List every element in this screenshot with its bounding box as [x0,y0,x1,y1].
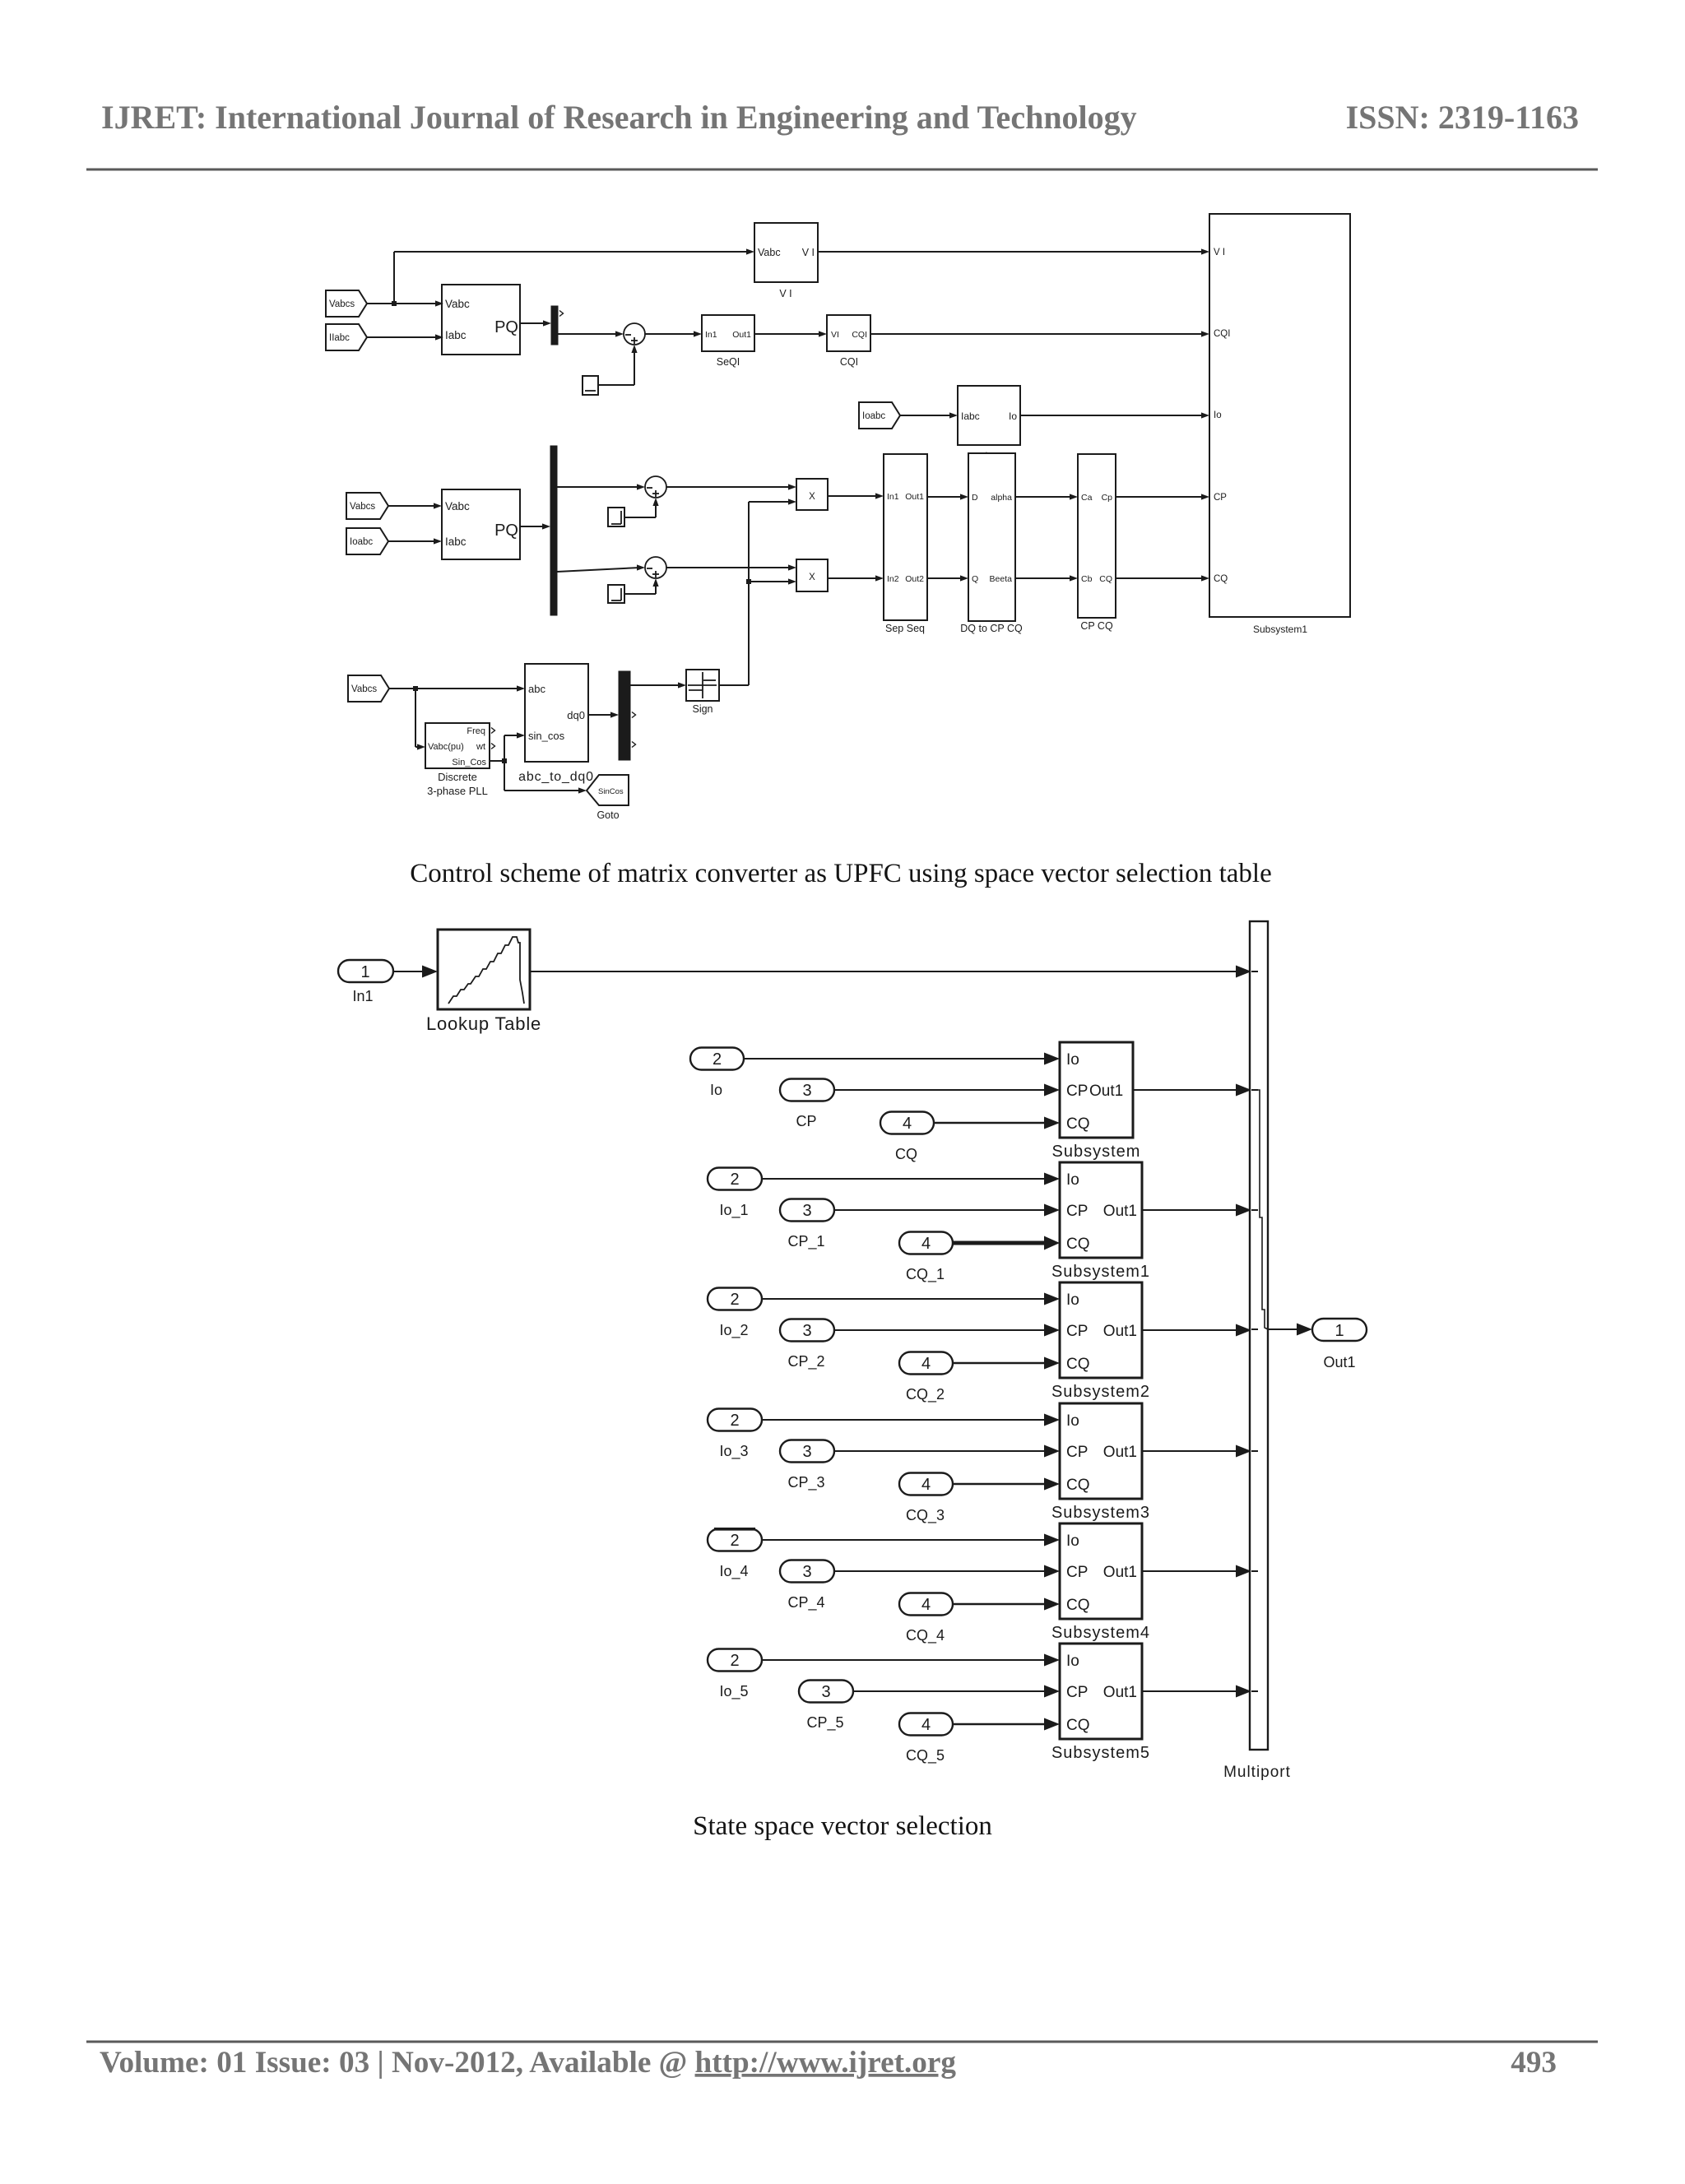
svg-text:V I: V I [779,288,791,299]
input oval 2 (Io_2) [708,1288,762,1340]
input oval 2 (Io_5) [708,1649,762,1701]
sum junction 3 [645,557,666,578]
svg-text:wt: wt [476,742,485,752]
sum junction 1 [624,323,645,345]
svg-text:CQ_5: CQ_5 [906,1747,945,1764]
wire X1 to Sep Seq In1 [828,493,884,498]
block Lookup Table [426,930,541,1034]
svg-text:Subsystem4: Subsystem4 [1051,1624,1150,1642]
svg-text:PQ: PQ [494,318,518,336]
demux bar 3 [619,671,636,760]
svg-text:3: 3 [802,1322,811,1340]
svg-text:CQ_4: CQ_4 [906,1627,945,1644]
wire Vabcs to abc_to_dq0 with branch node [389,685,525,691]
wire CQ_2 to Subsystem2 [953,1357,1060,1370]
wire X2 to Sep Seq In2 [828,575,884,581]
svg-text:Vabc: Vabc [445,298,470,310]
wire demux bar 3 to Sign [630,682,686,688]
svg-text:Ioabc: Ioabc [862,411,885,421]
svg-text:Out1: Out1 [905,492,924,502]
svg-text:Iabc: Iabc [961,410,980,422]
svg-text:CQ: CQ [1066,1356,1090,1373]
svg-text:2: 2 [730,1532,739,1550]
input tag Vabcs (top) [326,290,367,317]
svg-text:V I: V I [1214,248,1225,257]
svg-text:Freq: Freq [467,726,485,736]
svg-text:SeQI: SeQI [717,356,740,368]
svg-text:CP_2: CP_2 [787,1353,824,1370]
input oval 3 (CP_4) [780,1560,834,1612]
svg-text:CP: CP [796,1113,816,1129]
svg-text:Q: Q [972,574,978,584]
input oval 4 (CQ_2) [899,1352,953,1404]
wire Sign output up to products (vertical feed) [719,498,796,685]
svg-text:DQ to CP CQ: DQ to CP CQ [960,623,1023,634]
svg-text:CP CQ: CP CQ [1080,620,1113,632]
wire Cp to Subsystem1 CP [1116,494,1209,499]
svg-text:Sep Seq: Sep Seq [885,623,925,634]
input oval 4 (CQ_5) [899,1713,953,1765]
input oval 4 (CQ_1) [899,1232,953,1284]
block Discrete 3-phase PLL [425,723,495,797]
wire CQ to Subsystem [934,1117,1060,1129]
block Subsystem3 [1051,1403,1150,1522]
wire Io_1 to Subsystem1 [762,1173,1060,1185]
svg-text:Cb: Cb [1081,574,1093,584]
svg-text:CQ: CQ [895,1146,917,1162]
svg-text:CP: CP [1066,1564,1088,1581]
svg-text:Subsystem1: Subsystem1 [1051,1263,1150,1281]
input oval 3 (CP_2) [780,1319,834,1371]
svg-text:V I: V I [802,247,815,258]
block V I [754,223,818,299]
svg-text:4: 4 [921,1476,931,1494]
svg-text:Io: Io [1066,1412,1079,1430]
svg-text:D: D [972,493,978,503]
svg-text:Sin_Cos: Sin_Cos [452,758,486,767]
input tag Vabcs (middle) [346,493,388,519]
block CQI [827,315,870,368]
wire constant to sum 1 [598,345,638,385]
svg-text:Lookup Table: Lookup Table [426,1013,541,1034]
wire dq0 to demux bar 3 [588,712,619,717]
constant block feeding sum 1 [583,376,598,395]
svg-text:In1: In1 [705,330,717,340]
svg-text:CP: CP [1066,1684,1088,1701]
svg-text:3: 3 [802,1443,811,1461]
wire Vabcs to PQ2 [388,503,442,508]
svg-text:CQ: CQ [1066,1115,1090,1133]
memory block 1 [608,508,624,526]
sum junction 2 [645,476,666,498]
input tag Ioabc (row 3) [859,402,900,429]
svg-text:Subsystem1: Subsystem1 [1253,624,1307,635]
block Sep Seq [884,454,927,634]
wire IIabc to PQ1 [367,334,443,340]
input oval 3 (CP_5) [799,1681,853,1732]
svg-text:VI: VI [831,330,839,340]
caption state space vector selection [693,1811,992,1841]
input tag Vabcs (bottom) [348,675,389,702]
svg-text:1: 1 [1335,1322,1344,1340]
wire Subsystem Out1 to Multiport [1133,1084,1251,1097]
footer page number [1511,2046,1557,2080]
svg-text:IJRET: International Journal o: IJRET: International Journal of Research… [101,99,1137,136]
svg-text:Out1: Out1 [1103,1444,1137,1461]
svg-text:CQ: CQ [1066,1597,1090,1614]
wire Subsystem5 Out1 to Multiport [1142,1686,1251,1698]
svg-text:ISSN: 2319-1163: ISSN: 2319-1163 [1346,99,1579,136]
svg-text:CQI: CQI [852,330,867,340]
block Subsystem2 [1051,1282,1150,1401]
wire Io_2 to Subsystem2 [762,1293,1060,1305]
wire CQI to Subsystem1 [870,331,1209,336]
svg-text:Out1: Out1 [1323,1354,1355,1370]
svg-text:2: 2 [730,1291,739,1309]
svg-text:CQ: CQ [1214,574,1228,584]
footer rule [86,2041,1598,2043]
wire Out1 to D [927,494,968,499]
svg-text:Subsystem: Subsystem [1052,1143,1141,1161]
svg-text:2: 2 [730,1412,739,1430]
wire Subsystem2 Out1 to Multiport [1142,1324,1251,1337]
block SeQI [702,315,754,368]
svg-text:Io_3: Io_3 [719,1443,748,1460]
svg-text:CP_4: CP_4 [787,1594,824,1611]
svg-text:CP: CP [1214,493,1227,503]
svg-text:X: X [809,573,815,582]
svg-text:Out1: Out1 [1103,1564,1137,1581]
product block X1 [796,479,828,510]
wire In1 to Lookup Table [393,966,438,978]
svg-text:Iabc: Iabc [445,329,467,341]
goto tag SinCos [587,775,629,821]
wire demux bar 2 to sum 2 [557,484,645,489]
svg-text:4: 4 [921,1716,931,1734]
wire Lookup Table to Multiport port 1 [530,966,1251,978]
svg-text:Vabcs: Vabcs [329,299,355,309]
svg-text:abc: abc [528,683,545,695]
svg-text:Out2: Out2 [905,574,924,584]
header journal title [101,99,1137,136]
wire CP_4 to Subsystem4 [834,1565,1060,1578]
svg-text:4: 4 [921,1355,931,1373]
block Sign [686,670,719,715]
header ISSN [1346,99,1579,136]
svg-text:Io_5: Io_5 [719,1683,748,1700]
wire Io to Subsystem1 [1020,412,1209,418]
svg-text:Vabcs: Vabcs [350,502,375,512]
wire Subsystem1 Out1 to Multiport [1142,1204,1251,1217]
svg-text:alpha: alpha [991,493,1012,503]
svg-text:SinCos: SinCos [598,787,624,796]
wire Io_4 to Subsystem4 [762,1534,1060,1546]
wire memory 2 to sum 3 [624,578,659,594]
wire Multiport to Out1 [1268,1324,1312,1336]
svg-text:CQ: CQ [1066,1236,1090,1253]
svg-text:Subsystem2: Subsystem2 [1051,1383,1150,1401]
block Subsystem4 [1051,1523,1150,1642]
svg-text:CP_1: CP_1 [787,1233,824,1250]
input oval 2 (Io_1) [708,1168,762,1220]
svg-text:CQI: CQI [840,356,858,368]
svg-text:Vabcs: Vabcs [351,684,377,694]
svg-text:CP_3: CP_3 [787,1474,824,1491]
svg-text:dq0: dq0 [567,709,585,721]
footer volume line [100,2046,956,2080]
product block X2 [796,559,828,591]
svg-text:Out1: Out1 [1089,1083,1123,1100]
svg-text:Iabc: Iabc [445,536,467,548]
wire CQ_5 to Subsystem5 [953,1718,1060,1731]
svg-text:Io: Io [1214,410,1222,420]
svg-text:sin_cos: sin_cos [528,730,565,742]
svg-text:Subsystem3: Subsystem3 [1051,1504,1150,1522]
svg-text:Cp: Cp [1102,493,1113,503]
wire mux bar 1 to sum 1 [558,331,624,336]
svg-text:Control scheme of matrix conve: Control scheme of matrix converter as UP… [410,859,1271,888]
svg-text:Goto: Goto [596,809,619,821]
wire PQ1 to mux bar 1 [520,320,551,326]
svg-text:Discrete: Discrete [438,771,477,783]
block PQ power measurement 1 [442,285,520,355]
wire Io_5 to Subsystem5 [762,1654,1060,1667]
svg-text:CQ_3: CQ_3 [906,1507,945,1524]
svg-text:In1: In1 [887,492,899,502]
wire sum 3 to product X2 [666,564,796,570]
svg-text:Io: Io [1066,1051,1079,1069]
svg-text:Vabc: Vabc [445,500,470,512]
block Io [958,386,1020,461]
block DQ to CP CQ [960,453,1023,634]
svg-text:CQ: CQ [1066,1477,1090,1494]
svg-text:3: 3 [821,1683,830,1701]
svg-text:Ca: Ca [1081,493,1093,503]
input oval 2 (Io_3) [708,1409,762,1461]
wire CP_1 to Subsystem1 [834,1204,1060,1217]
input tag Ioabc (middle) [346,528,388,554]
svg-text:In2: In2 [887,574,899,584]
svg-text:IIabc: IIabc [329,333,350,343]
svg-text:CP: CP [1066,1323,1088,1340]
svg-text:Volume: 01 Issue: 03 | Nov-201: Volume: 01 Issue: 03 | Nov-2012, Availab… [100,2046,956,2080]
wire SeQI to CQI [754,331,827,336]
header rule [86,169,1598,171]
wire CQ_1 to Subsystem1 [953,1236,1060,1250]
svg-text:Io: Io [1066,1653,1079,1670]
block Subsystem1 [1209,214,1350,635]
wire sum 2 to product X1 [666,484,796,489]
svg-text:CQ_2: CQ_2 [906,1386,945,1403]
svg-text:3-phase PLL: 3-phase PLL [427,785,488,797]
svg-text:Io: Io [1066,1291,1079,1309]
wire sum 1 to SeQI [645,331,702,336]
svg-text:Io_1: Io_1 [719,1202,748,1219]
svg-text:Io: Io [1066,1533,1079,1550]
svg-text:Multiport: Multiport [1223,1764,1291,1781]
svg-text:3: 3 [802,1563,811,1581]
wire Vabcs to PQ1 with branch node [367,300,443,306]
svg-text:Vabc(pu): Vabc(pu) [428,742,464,752]
svg-text:Sign: Sign [692,703,713,715]
svg-text:Out1: Out1 [1103,1203,1137,1220]
svg-text:CQ_1: CQ_1 [906,1266,945,1283]
wire CP to Subsystem [834,1084,1060,1097]
svg-text:CQ: CQ [1066,1717,1090,1734]
wire CQ to Subsystem1 CQ [1116,575,1209,581]
block Subsystem5 [1051,1644,1150,1762]
wire Subsystem4 Out1 to Multiport [1142,1565,1251,1578]
svg-text:4: 4 [921,1235,931,1253]
wire PLL Sin_Cos to junction, up to sin_cos and down to Goto [490,732,587,793]
svg-text:3: 3 [802,1082,811,1100]
block CP CQ [1078,454,1116,632]
mux bar 1 [551,306,564,345]
svg-text:Out1: Out1 [1103,1323,1137,1340]
svg-text:X: X [809,492,815,502]
input oval 4 (CQ_3) [899,1473,953,1525]
wire CQ_3 to Subsystem3 [953,1478,1060,1491]
svg-text:Io: Io [1009,410,1017,422]
svg-text:CP_5: CP_5 [806,1714,843,1732]
wire Io_3 to Subsystem3 [762,1414,1060,1426]
svg-text:Io_4: Io_4 [719,1563,748,1580]
svg-text:Ioabc: Ioabc [350,537,373,547]
svg-text:2: 2 [713,1050,722,1069]
wire alpha to Ca [1015,494,1078,499]
wire memory 1 to sum 2 [624,498,659,517]
input oval 2 (Io) [690,1048,744,1099]
svg-text:State space vector selection: State space vector selection [693,1811,992,1841]
input oval 3 (CP_3) [780,1440,834,1492]
input oval 2 (Io_4) [708,1529,762,1581]
svg-text:In1: In1 [352,988,373,1004]
memory block 2 [608,585,624,603]
svg-text:Io: Io [1066,1171,1079,1189]
input oval 3 (CP_1) [780,1199,834,1251]
caption control scheme [410,859,1271,888]
svg-text:Vabc: Vabc [758,247,781,258]
svg-text:Subsystem5: Subsystem5 [1051,1744,1150,1762]
wire PQ2 to demux bar 2 [520,523,550,529]
svg-text:CP: CP [1066,1083,1088,1100]
output port oval Out1 [1312,1319,1367,1370]
svg-text:CP: CP [1066,1444,1088,1461]
block Subsystem [1052,1042,1141,1161]
wire Out2 to Q [927,575,968,581]
svg-text:3: 3 [802,1202,811,1220]
input oval 4 (CQ_4) [899,1593,953,1645]
demux bar 2 [550,446,557,615]
svg-text:CQI: CQI [1214,329,1230,339]
svg-text:CQ: CQ [1099,574,1112,584]
svg-text:abc_to_dq0: abc_to_dq0 [518,770,594,784]
input port oval In1 [338,960,393,1004]
wire V I to Subsystem1 [818,248,1209,254]
svg-text:Io: Io [710,1082,722,1098]
block Multiport [1223,921,1291,1781]
wire Ioabc to Io block [900,412,958,418]
wire Ioabc to PQ2 [388,538,442,544]
wire Io to Subsystem [744,1053,1060,1065]
wire branch up to V I block [394,248,754,304]
wire CP_5 to Subsystem5 [853,1686,1060,1698]
wire CQ_4 to Subsystem4 [953,1598,1060,1611]
input oval 3 (CP) [780,1079,834,1130]
svg-text:PQ: PQ [494,522,518,540]
wire CP_2 to Subsystem2 [834,1324,1060,1337]
svg-text:Io_2: Io_2 [719,1322,748,1339]
wire CP_3 to Subsystem3 [834,1445,1060,1458]
wire demux bar 2 to sum 3 (slanted) [557,564,645,572]
svg-text:Out1: Out1 [1103,1684,1137,1701]
svg-text:2: 2 [730,1652,739,1670]
input oval 4 (CQ) [880,1112,934,1163]
wire Subsystem3 Out1 to Multiport [1142,1445,1251,1458]
block abc_to_dq0 [518,664,594,784]
svg-text:Beeta: Beeta [990,574,1013,584]
svg-text:CP: CP [1066,1203,1088,1220]
block PQ power measurement 2 [442,489,520,559]
svg-text:Out1: Out1 [732,330,751,340]
input tag IIabc [326,324,367,350]
svg-text:4: 4 [903,1115,912,1133]
wire branch down to PLL [415,689,425,750]
svg-text:1: 1 [360,963,369,981]
block Subsystem1 [1051,1162,1150,1281]
svg-text:2: 2 [730,1171,739,1189]
svg-text:493: 493 [1511,2046,1557,2080]
wire Beeta to Cb [1015,575,1078,581]
svg-text:4: 4 [921,1596,931,1614]
